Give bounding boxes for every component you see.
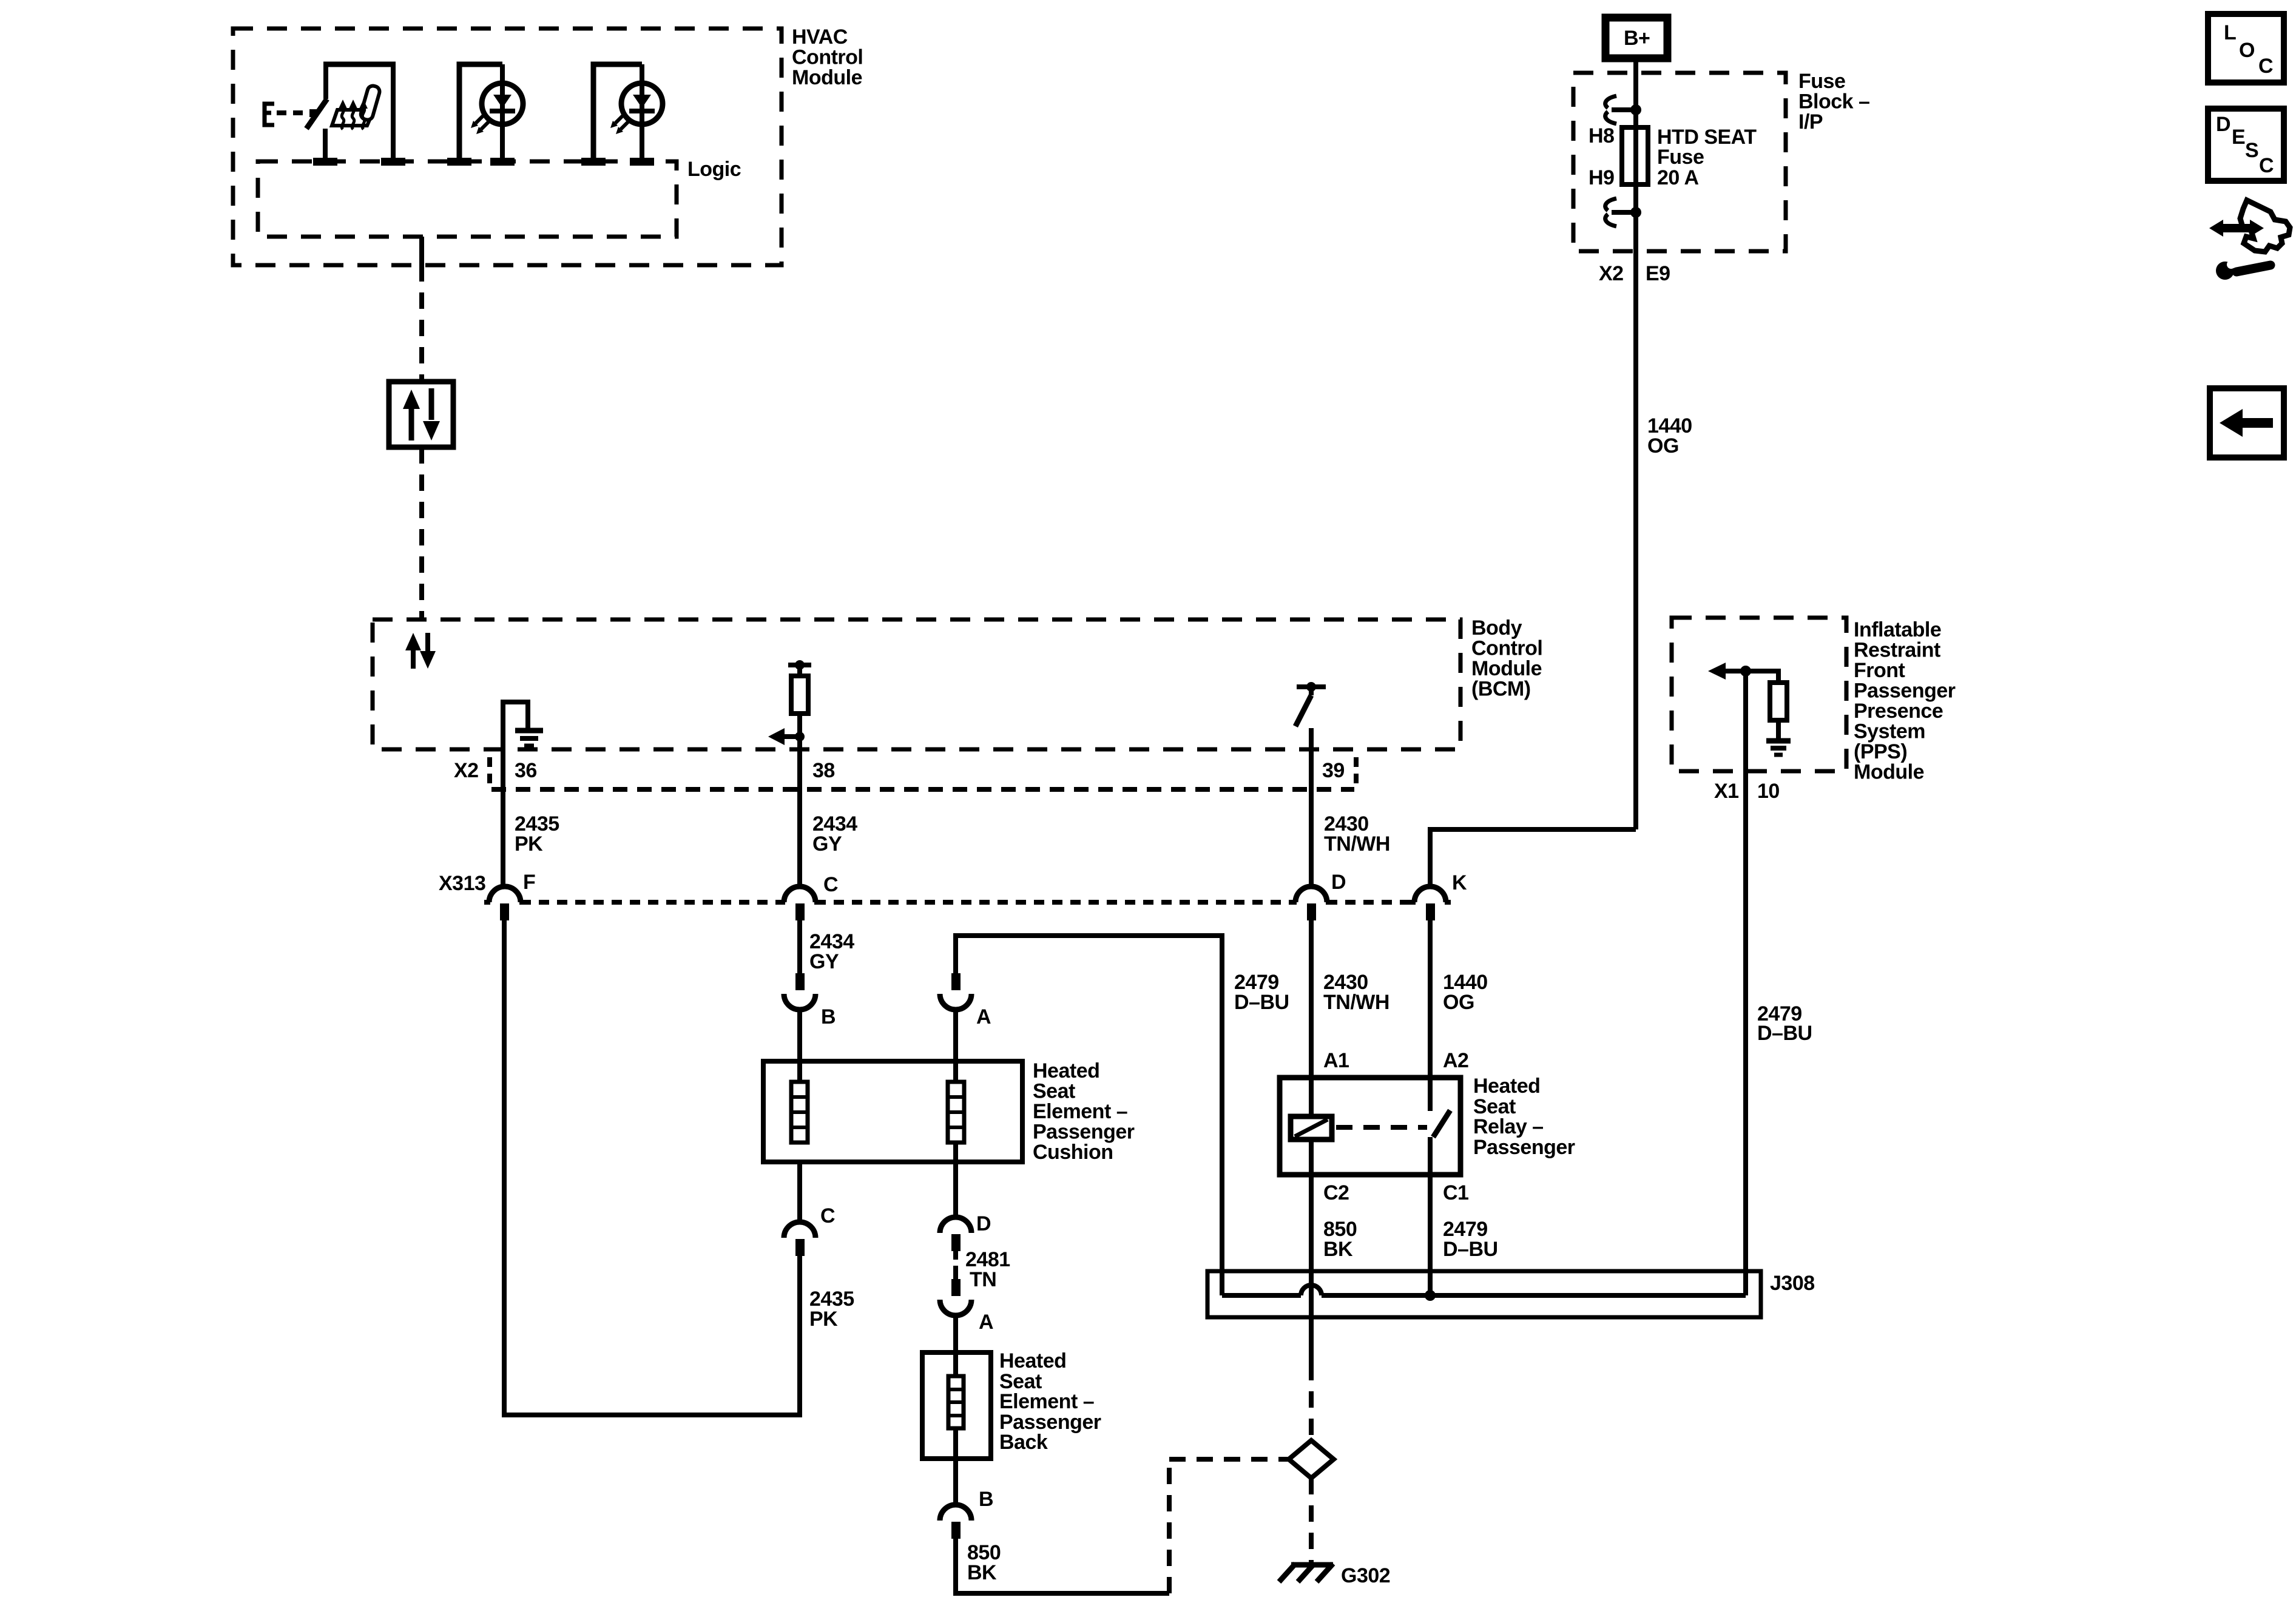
wire PPS X1 10 to J308 2479 D-BU <box>1743 671 1748 1295</box>
svg-text:G302: G302 <box>1341 1564 1390 1587</box>
svg-text:Module: Module <box>1471 657 1542 680</box>
relay coil <box>1291 1116 1332 1139</box>
Heated Seat Element Passenger Cushion box <box>763 1061 1022 1162</box>
fuse clip lower <box>1606 198 1616 211</box>
wire X313 D to relay A1 2430 TN/WH <box>1309 920 1314 1116</box>
svg-text:C: C <box>2259 154 2274 177</box>
splice dashed path <box>1167 1459 1172 1593</box>
ground G302 <box>1291 1562 1333 1568</box>
node E terminal of switch <box>265 104 274 125</box>
in-line connector A back <box>951 1279 961 1296</box>
svg-text:BK: BK <box>1323 1238 1353 1261</box>
wire X313 C to connector B <box>797 920 802 973</box>
Inflatable Restraint PPS Module box <box>1672 618 1846 771</box>
wire BCM 36 to X313 F <box>501 749 505 888</box>
svg-text:D: D <box>1331 871 1346 894</box>
LOC icon box <box>2208 14 2284 83</box>
X313 pin K <box>1414 886 1446 902</box>
wire BCM 38 to X313 C <box>797 749 802 888</box>
svg-text:Module: Module <box>792 66 862 89</box>
svg-text:Presence: Presence <box>1854 700 1943 723</box>
wire 1440 OG jog to X313 K <box>1430 829 1636 887</box>
PPS pull-up resistor <box>1746 671 1778 683</box>
connector repair icon <box>2209 200 2290 280</box>
svg-text:TN/WH: TN/WH <box>1324 832 1390 856</box>
in-line connector B <box>795 973 805 990</box>
svg-text:Block –: Block – <box>1798 90 1869 113</box>
svg-text:X313: X313 <box>439 872 485 895</box>
wire B to cushion element <box>797 1008 802 1082</box>
svg-text:O: O <box>2239 39 2255 62</box>
svg-text:Passenger: Passenger <box>1854 680 1956 703</box>
svg-text:X2: X2 <box>1599 262 1624 285</box>
J308 bus wire <box>1222 1293 1301 1298</box>
svg-text:Logic: Logic <box>687 158 741 181</box>
wire relay C1 to J308 2479 D-BU <box>1428 1137 1433 1291</box>
Heated Seat Relay box <box>1280 1078 1460 1175</box>
X313 arc feet <box>484 900 1451 905</box>
HVAC Control Module box <box>233 29 782 265</box>
svg-text:Cushion: Cushion <box>1033 1141 1113 1164</box>
battery node B+ <box>1606 18 1667 58</box>
wire X313 K to relay A2 1440 OG <box>1428 920 1433 1111</box>
wire 2481 TN <box>953 1251 958 1279</box>
svg-text:S: S <box>2245 139 2258 162</box>
serial data symbol box <box>389 382 453 447</box>
svg-text:J308: J308 <box>1770 1272 1815 1295</box>
svg-text:20 A: 20 A <box>1657 166 1699 189</box>
serial data arrows in BCM <box>405 633 421 650</box>
svg-text:Element –: Element – <box>999 1390 1094 1413</box>
svg-text:A: A <box>976 1005 991 1028</box>
svg-text:Fuse: Fuse <box>1657 146 1704 169</box>
wire feet on logic line <box>313 158 654 166</box>
fuse HTD SEAT 20A <box>1622 127 1648 184</box>
svg-text:TN/WH: TN/WH <box>1323 991 1389 1014</box>
svg-text:38: 38 <box>812 759 835 782</box>
relay switch blade <box>1433 1110 1450 1137</box>
svg-text:B: B <box>979 1488 993 1511</box>
svg-text:D: D <box>976 1212 991 1235</box>
svg-text:L: L <box>2224 21 2236 44</box>
svg-text:D–BU: D–BU <box>1234 991 1289 1014</box>
junction block J308 <box>1207 1271 1761 1317</box>
svg-text:A: A <box>979 1311 993 1334</box>
svg-text:OG: OG <box>1647 434 1679 457</box>
svg-text:GY: GY <box>809 950 839 973</box>
svg-text:HVAC: HVAC <box>792 25 848 49</box>
svg-text:H8: H8 <box>1589 124 1614 147</box>
svg-text:PK: PK <box>809 1308 838 1331</box>
LED indicator 2 <box>593 64 663 161</box>
svg-text:(PPS): (PPS) <box>1854 740 1907 763</box>
fuse clip upper <box>1606 96 1616 108</box>
LED indicator 1 <box>459 64 523 161</box>
svg-text:PK: PK <box>515 832 543 856</box>
svg-text:C1: C1 <box>1443 1181 1468 1204</box>
Logic box <box>258 161 677 237</box>
svg-text:Heated: Heated <box>1473 1075 1540 1098</box>
element symbol left <box>791 1082 808 1143</box>
svg-text:C: C <box>820 1204 835 1227</box>
wire logic to HVAC edge <box>419 237 424 265</box>
PPS ground symbol <box>1766 738 1791 744</box>
svg-text:Relay –: Relay – <box>1473 1115 1544 1138</box>
wire A to cushion element <box>953 1008 958 1082</box>
heated seat icon <box>332 84 381 129</box>
wire BCM 39 to X313 D <box>1309 749 1314 888</box>
X313 pin C <box>784 886 815 902</box>
serial data dashed wire to BCM <box>419 447 424 619</box>
svg-text:Passenger: Passenger <box>1473 1136 1575 1159</box>
svg-text:Fuse: Fuse <box>1798 70 1845 93</box>
svg-text:Heated: Heated <box>1033 1059 1099 1082</box>
splice S302 diamond <box>1289 1440 1334 1478</box>
connector X313 line <box>521 900 784 905</box>
svg-text:A2: A2 <box>1443 1049 1468 1072</box>
svg-text:Inflatable: Inflatable <box>1854 618 1941 641</box>
svg-text:A1: A1 <box>1323 1049 1349 1072</box>
X313 pin D <box>1295 886 1327 902</box>
svg-text:36: 36 <box>515 759 537 782</box>
svg-text:Seat: Seat <box>1033 1080 1075 1103</box>
svg-text:Back: Back <box>999 1431 1048 1454</box>
svg-text:X1: X1 <box>1714 780 1739 803</box>
Heated Seat Element Passenger Back box <box>922 1352 991 1459</box>
svg-text:TN: TN <box>970 1268 996 1291</box>
svg-text:I/P: I/P <box>1798 110 1823 133</box>
element symbol right <box>948 1082 964 1143</box>
svg-text:Front: Front <box>1854 659 1905 682</box>
svg-text:H9: H9 <box>1589 166 1614 189</box>
wire back element to connector B <box>953 1428 958 1507</box>
junction dot J308 <box>1425 1290 1436 1301</box>
svg-text:X2: X2 <box>454 759 479 782</box>
wire 850 BK to splice path <box>956 1539 1169 1593</box>
svg-text:C2: C2 <box>1323 1181 1349 1204</box>
svg-text:39: 39 <box>1322 759 1345 782</box>
svg-text:E9: E9 <box>1646 262 1670 285</box>
svg-text:Body: Body <box>1471 616 1522 640</box>
svg-text:K: K <box>1452 871 1467 894</box>
svg-text:BK: BK <box>967 1561 997 1584</box>
switch S1 heated seat switch <box>323 64 328 99</box>
svg-text:F: F <box>523 871 535 894</box>
svg-text:10: 10 <box>1757 780 1780 803</box>
element symbol back <box>948 1376 964 1428</box>
svg-text:Heated: Heated <box>999 1349 1066 1372</box>
Fuse Block I/P box <box>1573 73 1786 251</box>
mechanical link dashes from E <box>277 110 309 115</box>
svg-text:Control: Control <box>792 46 863 69</box>
wire cushion A to J308 2479 D-BU <box>956 936 1222 1295</box>
wire B+ to fuse to E9 <box>1633 58 1638 829</box>
svg-text:(BCM): (BCM) <box>1471 678 1531 701</box>
connector X2 brackets and line <box>487 757 492 789</box>
wire relay C2 to J308 850 BK <box>1309 1139 1314 1364</box>
wire A to back element <box>953 1314 958 1376</box>
X313 pin F <box>489 886 521 902</box>
svg-text:C: C <box>2258 55 2273 78</box>
svg-text:Control: Control <box>1471 637 1542 660</box>
svg-text:C: C <box>823 873 838 896</box>
PPS input arrow <box>1708 663 1726 680</box>
svg-text:D–BU: D–BU <box>1757 1022 1812 1045</box>
ground symbol inside BCM <box>503 702 528 749</box>
svg-text:E: E <box>2232 126 2245 149</box>
dashed wire splice to ground <box>1309 1478 1314 1564</box>
svg-text:GY: GY <box>812 832 842 856</box>
in-line connector A <box>951 973 961 990</box>
serial data dashed wire <box>419 265 424 382</box>
driver output symbol inside BCM pin 38 <box>788 663 811 667</box>
relay linkage dashes <box>1336 1125 1427 1130</box>
wire cushion element to connector D <box>953 1143 958 1218</box>
Body Control Module box <box>373 619 1460 749</box>
back arrow icon box <box>2210 388 2284 457</box>
svg-text:Module: Module <box>1854 761 1924 784</box>
svg-text:Passenger: Passenger <box>1033 1121 1135 1144</box>
svg-text:B+: B+ <box>1624 27 1650 50</box>
svg-text:System: System <box>1854 720 1925 743</box>
svg-text:D–BU: D–BU <box>1443 1238 1498 1261</box>
switch symbol inside BCM pin 39 <box>1297 684 1326 689</box>
svg-text:Element –: Element – <box>1033 1100 1127 1123</box>
svg-text:D: D <box>2216 113 2230 136</box>
svg-text:Restraint: Restraint <box>1854 639 1940 662</box>
svg-text:OG: OG <box>1443 991 1474 1014</box>
svg-text:B: B <box>821 1005 836 1028</box>
wire X313 F loop to connector C <box>504 920 800 1415</box>
wire J308 to splice <box>1309 1317 1314 1364</box>
DESC icon box <box>2208 109 2284 181</box>
